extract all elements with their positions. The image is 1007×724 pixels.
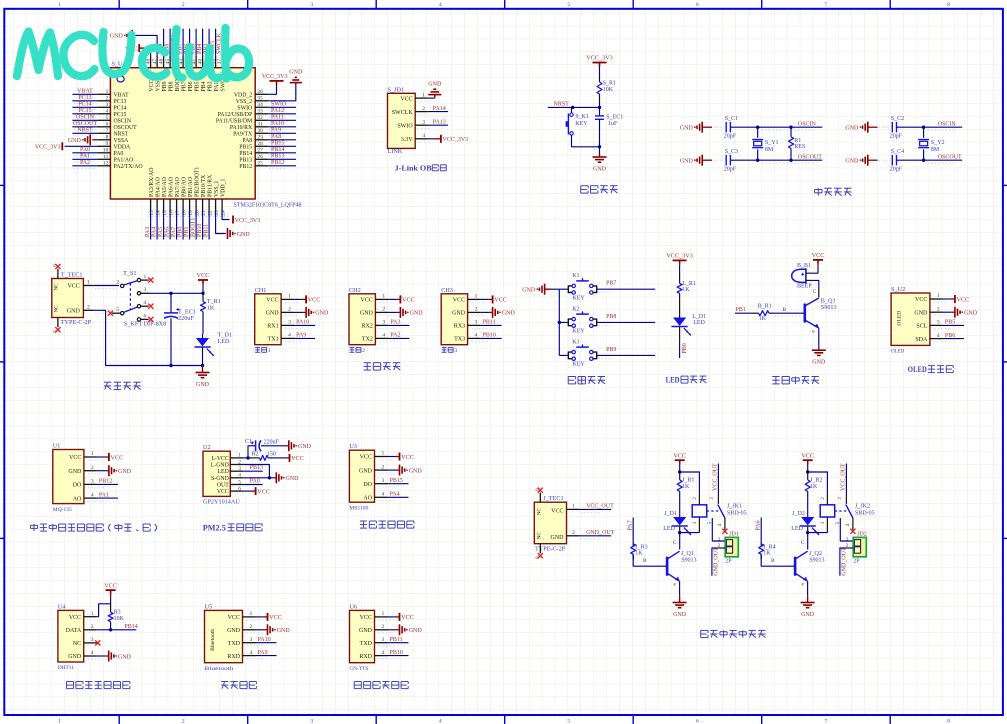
wire bbox=[72, 165, 97, 167]
pin 4 bbox=[852, 518, 854, 530]
wire bbox=[268, 126, 296, 128]
svg-text:1uF: 1uF bbox=[608, 121, 618, 127]
wire bbox=[388, 324, 409, 326]
power VCC bbox=[104, 582, 117, 594]
svg-text:GND: GND bbox=[409, 628, 423, 634]
svg-text:1: 1 bbox=[91, 611, 94, 617]
wire bbox=[97, 629, 137, 631]
MCU pins right 25-36 bbox=[216, 89, 268, 170]
junction bbox=[789, 126, 792, 129]
svg-text:J_R1: J_R1 bbox=[682, 478, 694, 484]
svg-text:VCC_3V3: VCC_3V3 bbox=[35, 145, 61, 151]
wire bbox=[268, 83, 296, 101]
pin NC top bbox=[539, 493, 541, 503]
svg-text:DO: DO bbox=[73, 483, 82, 489]
wire bbox=[243, 470, 262, 472]
push button K1 KEY bbox=[568, 273, 596, 301]
pin 2 bbox=[846, 547, 853, 549]
svg-text:VBAT: VBAT bbox=[114, 92, 130, 98]
svg-text:NC: NC bbox=[53, 283, 59, 291]
svg-text:PB4: PB4 bbox=[197, 44, 203, 54]
wire bbox=[943, 311, 952, 313]
wire bbox=[597, 354, 656, 356]
svg-text:VCC: VCC bbox=[402, 297, 415, 304]
svg-text:KEY: KEY bbox=[572, 329, 585, 335]
svg-text:DHT11: DHT11 bbox=[58, 665, 74, 671]
wire bbox=[818, 348, 820, 350]
caption 串口电路 bbox=[364, 363, 401, 370]
wire NRST node bbox=[548, 101, 600, 107]
wire bbox=[222, 212, 229, 220]
capacitor S_C4 20pF bbox=[890, 149, 904, 173]
wire bbox=[808, 472, 828, 493]
svg-text:SRD-05: SRD-05 bbox=[855, 510, 875, 516]
svg-text:4: 4 bbox=[91, 650, 94, 656]
svg-text:1: 1 bbox=[475, 294, 478, 300]
svg-text:1K: 1K bbox=[682, 484, 690, 490]
wire bbox=[481, 298, 489, 300]
crystal S_Y1 8M bbox=[752, 127, 778, 160]
wire bbox=[72, 93, 97, 95]
wire bbox=[388, 483, 409, 485]
wire bbox=[272, 457, 286, 459]
svg-text:VCC: VCC bbox=[69, 615, 81, 621]
svg-text:S_Y2: S_Y2 bbox=[931, 140, 945, 146]
connector U5 bbox=[205, 603, 243, 672]
svg-text:NC: NC bbox=[53, 305, 59, 313]
no-ERC mark bbox=[148, 304, 153, 309]
svg-text:PB11/RX: PB11/RX bbox=[207, 174, 213, 197]
svg-text:J_D2: J_D2 bbox=[792, 511, 805, 517]
svg-text:2: 2 bbox=[106, 96, 109, 102]
resistor J_R4 1K bbox=[759, 543, 776, 560]
svg-text:L_D1: L_D1 bbox=[692, 314, 706, 320]
svg-text:1: 1 bbox=[238, 453, 241, 459]
svg-text:RX2: RX2 bbox=[362, 324, 373, 330]
pin 2 bbox=[230, 464, 243, 466]
svg-text:PA4: PA4 bbox=[152, 227, 158, 237]
svg-text:10K: 10K bbox=[603, 87, 614, 93]
svg-text:3: 3 bbox=[382, 478, 385, 484]
svg-text:4: 4 bbox=[475, 333, 478, 339]
svg-text:OSCOUT: OSCOUT bbox=[798, 154, 822, 160]
svg-text:PA6/AO: PA6/AO bbox=[168, 177, 174, 197]
wire bbox=[868, 126, 878, 128]
wire bbox=[388, 311, 397, 313]
wire bbox=[580, 535, 612, 537]
resistor L_R1 1K bbox=[677, 273, 696, 298]
wire bbox=[760, 518, 762, 544]
ground bbox=[276, 472, 299, 483]
svg-text:PB6: PB6 bbox=[945, 333, 955, 339]
wire bbox=[72, 113, 97, 115]
svg-text:VCC: VCC bbox=[308, 297, 321, 304]
MCUclub logo bbox=[17, 28, 249, 79]
svg-text:K3: K3 bbox=[572, 339, 579, 345]
svg-text:PB11: PB11 bbox=[390, 637, 403, 643]
svg-text:3: 3 bbox=[382, 637, 385, 643]
power VCC bbox=[268, 613, 282, 621]
push button K2 KEY bbox=[568, 306, 596, 334]
svg-text:2: 2 bbox=[572, 530, 575, 536]
pin 2 bbox=[281, 311, 294, 313]
svg-text:6: 6 bbox=[696, 718, 699, 724]
wire bbox=[195, 29, 197, 56]
svg-text:GND: GND bbox=[359, 468, 373, 474]
svg-text:PB15: PB15 bbox=[390, 478, 403, 484]
wire bbox=[97, 604, 111, 617]
pin 3 bbox=[845, 497, 847, 504]
svg-text:PA10: PA10 bbox=[258, 637, 271, 643]
svg-text:220uF: 220uF bbox=[264, 440, 280, 446]
svg-text:S_C4: S_C4 bbox=[891, 149, 904, 155]
power VCC_3V3 bbox=[233, 216, 260, 224]
transistor J_Q2 S9013 bbox=[771, 540, 825, 588]
wire bbox=[702, 126, 712, 128]
svg-text:VSSA: VSSA bbox=[114, 138, 130, 144]
no-ERC mark bbox=[55, 327, 60, 332]
pin 2 bbox=[375, 629, 388, 631]
pin 4 bbox=[415, 138, 428, 140]
svg-text:1K: 1K bbox=[810, 484, 818, 490]
wire bbox=[572, 135, 600, 147]
svg-text:5: 5 bbox=[238, 479, 241, 485]
caption J-Link OB接口 bbox=[395, 165, 447, 173]
ground bbox=[680, 155, 702, 166]
pin 4 bbox=[375, 496, 388, 498]
resistor T_R1 1K bbox=[201, 293, 221, 316]
svg-text:PA0: PA0 bbox=[114, 151, 124, 157]
pin 3 bbox=[415, 124, 428, 126]
svg-text:R3: R3 bbox=[114, 610, 121, 616]
svg-text:PA5/AO: PA5/AO bbox=[162, 177, 168, 197]
junction bbox=[246, 456, 249, 459]
pin 4 bbox=[375, 337, 388, 339]
svg-text:U2: U2 bbox=[203, 444, 211, 451]
svg-text:LED: LED bbox=[218, 469, 229, 475]
power VCC bbox=[256, 487, 270, 495]
pin bbox=[806, 272, 812, 274]
svg-text:PB5: PB5 bbox=[945, 320, 955, 326]
svg-text:PA4/AO: PA4/AO bbox=[155, 177, 161, 197]
svg-text:OSCOUT: OSCOUT bbox=[938, 154, 962, 160]
svg-text:12: 12 bbox=[103, 161, 109, 167]
pin 2 bbox=[468, 311, 481, 313]
svg-text:J_R2: J_R2 bbox=[810, 478, 822, 484]
svg-text:PB10: PB10 bbox=[483, 333, 496, 339]
svg-text:29: 29 bbox=[257, 135, 263, 141]
svg-text:K2: K2 bbox=[572, 306, 579, 312]
wire bbox=[599, 147, 601, 154]
svg-text:OSCOUT: OSCOUT bbox=[114, 125, 138, 131]
power VCC bbox=[290, 454, 304, 462]
svg-text:RXD: RXD bbox=[227, 654, 240, 660]
svg-text:PB12: PB12 bbox=[99, 479, 112, 485]
wire bbox=[256, 629, 265, 631]
svg-text:48: 48 bbox=[145, 58, 151, 64]
wire bbox=[599, 107, 601, 115]
pin 3 bbox=[375, 483, 388, 485]
wire bbox=[195, 212, 197, 240]
svg-text:VCC_OUT: VCC_OUT bbox=[841, 463, 847, 491]
svg-text:PB1: PB1 bbox=[736, 307, 746, 313]
svg-text:20pF: 20pF bbox=[890, 167, 903, 173]
wire bbox=[545, 288, 552, 290]
ground bbox=[428, 81, 442, 94]
svg-text:2: 2 bbox=[250, 624, 253, 630]
svg-text:VCC: VCC bbox=[915, 297, 927, 303]
svg-text:VCC: VCC bbox=[228, 615, 240, 621]
ground bbox=[196, 373, 210, 389]
svg-text:PA9: PA9 bbox=[296, 333, 306, 339]
svg-text:GND: GND bbox=[801, 612, 815, 618]
svg-text:2P: 2P bbox=[725, 559, 732, 565]
wire bbox=[807, 496, 809, 517]
svg-text:2: 2 bbox=[182, 718, 185, 724]
wire bbox=[388, 629, 397, 631]
svg-text:10K: 10K bbox=[114, 616, 125, 622]
wire bbox=[388, 616, 396, 618]
connector JD1 2P bbox=[718, 532, 739, 565]
svg-text:46: 46 bbox=[158, 58, 164, 64]
svg-text:PC15: PC15 bbox=[78, 108, 91, 114]
ground bbox=[845, 155, 867, 166]
IC S_U1 STM32F103C8T6_LQFP48 bbox=[110, 61, 301, 209]
junction bbox=[598, 145, 601, 148]
svg-text:GND: GND bbox=[118, 654, 132, 660]
svg-text:1: 1 bbox=[846, 536, 849, 542]
svg-text:RXD: RXD bbox=[359, 654, 372, 660]
pin 4 bbox=[84, 497, 97, 499]
svg-text:2: 2 bbox=[382, 307, 385, 313]
svg-text:GND: GND bbox=[196, 382, 210, 388]
wire bbox=[712, 548, 718, 576]
svg-text:3: 3 bbox=[837, 497, 843, 500]
connector CH2 bbox=[349, 287, 375, 354]
wire bbox=[730, 126, 822, 128]
svg-text:VCC_3V3: VCC_3V3 bbox=[443, 137, 469, 143]
ground bbox=[289, 440, 312, 451]
svg-text:PB15: PB15 bbox=[271, 141, 284, 147]
svg-text:45: 45 bbox=[165, 58, 171, 64]
pin 2 bbox=[84, 470, 97, 472]
resistor R1 RES bbox=[789, 127, 806, 160]
svg-text:6: 6 bbox=[238, 486, 241, 492]
wire bbox=[182, 212, 184, 240]
wire bbox=[216, 212, 226, 234]
svg-text:PA6: PA6 bbox=[165, 227, 171, 237]
pin 3 bbox=[468, 324, 481, 326]
wire bbox=[428, 138, 434, 140]
svg-text:S_C1: S_C1 bbox=[725, 116, 738, 122]
svg-text:T_S1: T_S1 bbox=[123, 270, 136, 277]
svg-text:VCC: VCC bbox=[266, 298, 278, 304]
wire bbox=[94, 310, 203, 365]
wire bbox=[182, 29, 184, 56]
wire bbox=[812, 280, 819, 287]
svg-text:U4: U4 bbox=[58, 603, 66, 610]
wire bbox=[481, 311, 490, 313]
svg-text:C: C bbox=[813, 289, 817, 295]
pin 1 bbox=[415, 97, 428, 99]
wire bbox=[72, 158, 97, 160]
wire bbox=[243, 484, 262, 486]
ground bbox=[400, 465, 423, 476]
svg-text:SWIO: SWIO bbox=[271, 102, 287, 108]
wire bbox=[633, 554, 667, 566]
svg-text:LED: LED bbox=[666, 376, 680, 385]
capacitor T_EC1 220uF bbox=[164, 293, 196, 365]
wire bbox=[169, 29, 171, 56]
svg-text:PA10: PA10 bbox=[271, 121, 284, 127]
svg-text:SWCLK: SWCLK bbox=[392, 110, 414, 116]
svg-text:J_TEC1: J_TEC1 bbox=[543, 495, 563, 502]
wire bbox=[72, 100, 97, 102]
svg-text:SCL: SCL bbox=[916, 324, 927, 330]
wire bbox=[679, 260, 681, 264]
svg-text:KEY: KEY bbox=[572, 296, 585, 302]
svg-text:S_JD1: S_JD1 bbox=[388, 87, 405, 94]
pin 2 bbox=[375, 311, 388, 313]
svg-text:36: 36 bbox=[257, 89, 263, 95]
svg-text:1: 1 bbox=[106, 89, 109, 95]
wire bbox=[202, 280, 204, 285]
wire bbox=[943, 298, 951, 300]
svg-text:NC: NC bbox=[536, 531, 542, 539]
wire bbox=[717, 464, 719, 497]
svg-text:PA12: PA12 bbox=[271, 108, 284, 114]
svg-text:4: 4 bbox=[238, 473, 241, 479]
svg-text:JD1: JD1 bbox=[729, 532, 738, 538]
capacitor C1 220uF bbox=[245, 439, 280, 451]
svg-text:PA1/AO: PA1/AO bbox=[114, 157, 134, 163]
svg-text:11: 11 bbox=[103, 154, 108, 160]
svg-text:PC14: PC14 bbox=[114, 105, 127, 111]
ground bbox=[673, 603, 687, 619]
svg-text:B: B bbox=[643, 558, 647, 564]
svg-text:S_R1: S_R1 bbox=[603, 81, 616, 87]
svg-text:32: 32 bbox=[257, 115, 263, 121]
wire bbox=[202, 317, 204, 335]
svg-text:8M: 8M bbox=[931, 147, 940, 153]
svg-text:NRST: NRST bbox=[114, 131, 129, 137]
relay J_JK1 SRD-05 bbox=[692, 493, 747, 532]
svg-text:RX3: RX3 bbox=[454, 324, 465, 330]
svg-text:VDD_1: VDD_1 bbox=[220, 179, 226, 197]
wire bbox=[597, 321, 656, 323]
svg-text:PB12: PB12 bbox=[239, 164, 252, 170]
connector U6 bbox=[350, 603, 375, 672]
svg-text:PA14: PA14 bbox=[433, 106, 446, 112]
svg-text:7: 7 bbox=[106, 128, 109, 134]
svg-text:VDDA: VDDA bbox=[114, 144, 132, 150]
svg-text:GND: GND bbox=[410, 311, 424, 317]
svg-text:2: 2 bbox=[422, 106, 425, 112]
wire bbox=[294, 324, 315, 326]
svg-text:NRST: NRST bbox=[77, 128, 93, 134]
svg-text:U3: U3 bbox=[349, 443, 357, 450]
svg-text:1: 1 bbox=[288, 294, 291, 300]
svg-text:3: 3 bbox=[937, 320, 940, 326]
svg-text:T_TEC1: T_TEC1 bbox=[61, 272, 83, 279]
pin 2 bbox=[83, 309, 93, 311]
svg-text:3: 3 bbox=[422, 119, 425, 125]
connector CH3 bbox=[441, 287, 467, 354]
pin 1 bbox=[468, 298, 481, 300]
junction bbox=[806, 531, 809, 534]
svg-text:3: 3 bbox=[709, 497, 715, 500]
svg-text:C: C bbox=[801, 540, 805, 546]
svg-text:GND: GND bbox=[68, 654, 82, 660]
pin 4 bbox=[243, 655, 256, 657]
ground bbox=[522, 284, 544, 295]
svg-text:VCC_3V3: VCC_3V3 bbox=[235, 218, 261, 224]
wire bbox=[599, 67, 601, 78]
pin 2 bbox=[930, 311, 943, 313]
svg-text:PB13: PB13 bbox=[250, 465, 263, 471]
caption 电源电路 bbox=[104, 382, 141, 389]
svg-text:S_K1: S_K1 bbox=[575, 114, 589, 120]
svg-text:TYPE-C-2P: TYPE-C-2P bbox=[535, 545, 566, 552]
svg-text:2P: 2P bbox=[853, 559, 860, 565]
svg-text:J_JK2: J_JK2 bbox=[855, 503, 870, 509]
svg-text:J_Q2: J_Q2 bbox=[809, 551, 822, 557]
wire bbox=[134, 35, 157, 55]
svg-text:GND: GND bbox=[409, 468, 423, 474]
pin 2 bbox=[375, 469, 388, 471]
wire bbox=[679, 460, 681, 464]
svg-text:PA10: PA10 bbox=[296, 320, 309, 326]
svg-text:S_Y1: S_Y1 bbox=[765, 140, 779, 146]
wire bbox=[818, 328, 820, 348]
wire bbox=[202, 29, 204, 56]
svg-text:PB13: PB13 bbox=[239, 157, 252, 163]
svg-text:3: 3 bbox=[91, 479, 94, 485]
svg-text:VCC: VCC bbox=[400, 96, 412, 102]
svg-text:TX3: TX3 bbox=[454, 337, 465, 343]
svg-text:VCC: VCC bbox=[104, 582, 117, 589]
MCU pins bottom 13-24 bbox=[149, 167, 227, 216]
svg-text:GND_OUT: GND_OUT bbox=[714, 547, 720, 576]
svg-text:PA5: PA5 bbox=[158, 227, 164, 237]
crystal S_Y2 8M bbox=[918, 127, 944, 160]
no-ERC mark bbox=[108, 311, 113, 316]
wire bbox=[92, 139, 97, 141]
svg-text:S_EC1: S_EC1 bbox=[606, 115, 623, 121]
resistor J_R2 1K bbox=[805, 472, 822, 496]
connector S_U2 bbox=[891, 286, 930, 355]
svg-text:PB15: PB15 bbox=[239, 144, 252, 150]
svg-text:4: 4 bbox=[422, 133, 425, 139]
wire bbox=[202, 366, 204, 373]
svg-text:LINK: LINK bbox=[388, 148, 403, 155]
svg-text:MS1100: MS1100 bbox=[349, 505, 368, 511]
svg-text:GND: GND bbox=[237, 232, 251, 238]
svg-text:PB8: PB8 bbox=[606, 314, 616, 320]
wire bbox=[868, 159, 878, 161]
svg-text:1: 1 bbox=[820, 521, 826, 524]
svg-text:7: 7 bbox=[824, 718, 827, 724]
svg-text:PB7: PB7 bbox=[606, 281, 616, 287]
pin 1 bbox=[84, 456, 97, 458]
wire bbox=[807, 460, 809, 464]
svg-text:2: 2 bbox=[382, 464, 385, 470]
svg-text:LED: LED bbox=[663, 526, 675, 532]
wire bbox=[110, 590, 112, 598]
wire bbox=[215, 29, 217, 56]
svg-text:GND: GND bbox=[110, 34, 124, 40]
resistor S_R1 10K bbox=[597, 77, 616, 101]
